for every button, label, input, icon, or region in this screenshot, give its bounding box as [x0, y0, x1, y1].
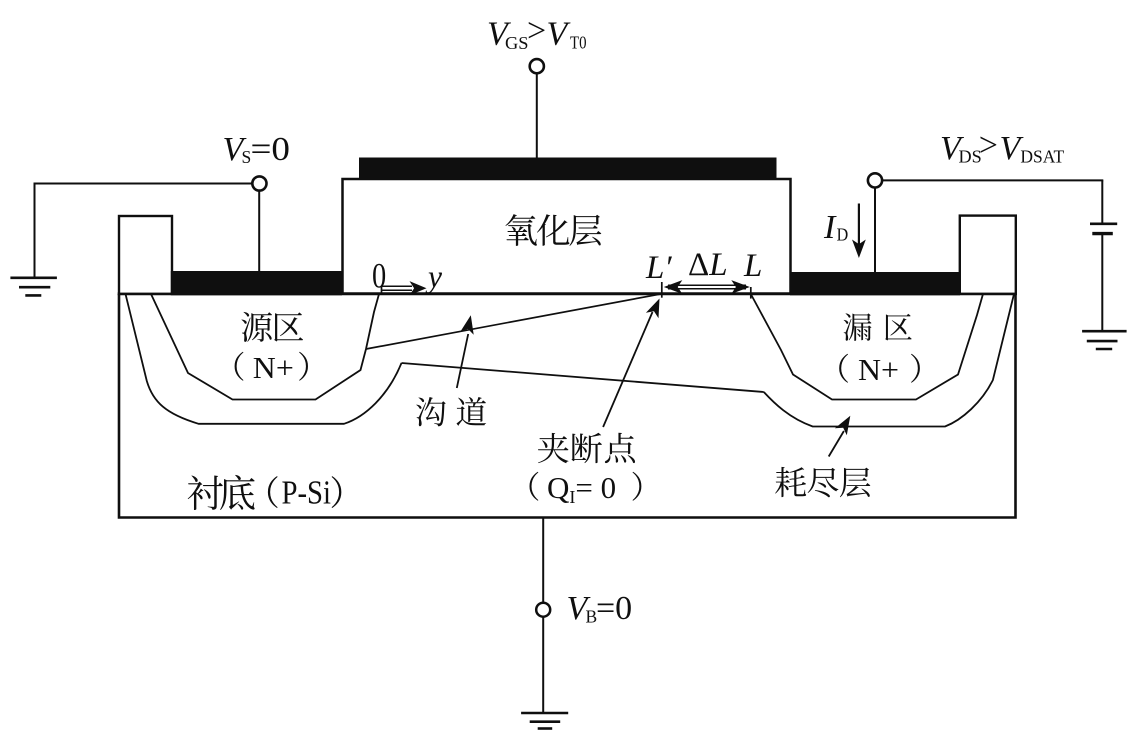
- wire: battery to ground: [1101, 235, 1103, 331]
- terminal circle V_GS: [530, 59, 544, 73]
- svg-text:I: I: [823, 209, 837, 246]
- svg-text:DSAT: DSAT: [1020, 147, 1064, 167]
- svg-text:GS: GS: [505, 33, 529, 53]
- y-axis arrow: [382, 285, 413, 287]
- label source region 源区: [241, 312, 272, 342]
- label channel 沟道: [416, 397, 446, 426]
- dimension arrow L..L (double headed): [668, 284, 746, 286]
- label substrate 衬底: [188, 476, 223, 510]
- ground symbol (drain battery): [1082, 330, 1127, 333]
- wire: gate drop: [536, 74, 538, 159]
- label source (N+): [235, 352, 244, 381]
- source metal contact (black): [171, 271, 342, 295]
- svg-text:=0: =0: [251, 131, 291, 168]
- wire: source contact drop: [258, 191, 260, 273]
- label oxide layer 氧化层: [505, 214, 537, 246]
- pointer arrow to channel: [457, 334, 468, 388]
- drain depletion boundary: [764, 294, 1014, 427]
- label V_GS>V_T0: [487, 12, 587, 53]
- left field step (source side raised block): [119, 216, 172, 294]
- svg-text:L′: L′: [645, 250, 672, 286]
- gate electrode (black): [359, 158, 777, 180]
- substrate body (P-Si) outline: [119, 294, 1016, 518]
- svg-text:D: D: [837, 224, 849, 244]
- oxide layer box: [343, 179, 791, 294]
- ground symbol (source): [10, 276, 57, 279]
- y-axis origin tick: [381, 287, 383, 295]
- pointer arrow to pinch-off point: [603, 312, 652, 427]
- svg-text:N+: N+: [858, 352, 899, 387]
- label V_DS>V_DSAT: [940, 127, 1065, 167]
- wire: drain horizontal to battery: [882, 179, 1103, 181]
- svg-text:L: L: [743, 248, 762, 284]
- wire: drain contact drop: [874, 188, 876, 274]
- tick at L: [750, 287, 752, 299]
- battery V_DS: positive plate: [1090, 223, 1117, 226]
- arrow I_D (current direction): [858, 204, 860, 246]
- right field step (drain side raised block): [960, 216, 1016, 294]
- depletion boundary under channel: [402, 363, 764, 392]
- battery V_DS: negative plate: [1092, 232, 1113, 235]
- terminal circle V_B: [536, 603, 550, 617]
- source depletion boundary: [126, 294, 402, 424]
- svg-text:P-Si: P-Si: [282, 474, 332, 511]
- drain N+ inner junction: [751, 294, 983, 400]
- svg-text:V: V: [547, 16, 572, 53]
- svg-text:>: >: [979, 127, 998, 164]
- svg-text:>: >: [527, 12, 546, 49]
- wire: substrate terminal to ground: [542, 617, 544, 714]
- wire: source lead horizontal: [35, 183, 253, 185]
- label depletion layer 耗尽层: [775, 467, 806, 497]
- channel inversion layer line: [366, 294, 662, 349]
- svg-text:y: y: [425, 259, 442, 294]
- tick at L': [661, 282, 663, 298]
- terminal circle V_DS: [868, 173, 882, 187]
- svg-text:ΔL: ΔL: [688, 247, 728, 283]
- label drain region 漏区: [844, 313, 872, 341]
- label pinch-off point 夹断点: [538, 433, 568, 463]
- svg-text:=0: =0: [596, 590, 632, 627]
- label I_D: [823, 209, 848, 246]
- substrate surface line: [118, 292, 1017, 295]
- svg-text:QI= 0: QI= 0: [547, 470, 616, 507]
- svg-text:T0: T0: [570, 33, 587, 53]
- label (P-Si): [268, 476, 278, 508]
- label V_B=0: [567, 590, 633, 627]
- source N+ inner junction: [151, 294, 379, 400]
- terminal circle V_S: [252, 176, 266, 190]
- pointer arrow to depletion layer: [829, 431, 844, 457]
- label (Q_I = 0): [529, 472, 538, 501]
- label V_S=0: [223, 131, 291, 168]
- wire: substrate drop: [542, 518, 544, 603]
- drain metal contact (black): [790, 272, 960, 295]
- svg-text:N+: N+: [253, 350, 294, 385]
- label drain (N+): [839, 354, 848, 383]
- wire: battery drop: [1101, 180, 1103, 222]
- wire: source ground drop: [34, 183, 36, 278]
- ground symbol (substrate): [521, 712, 568, 715]
